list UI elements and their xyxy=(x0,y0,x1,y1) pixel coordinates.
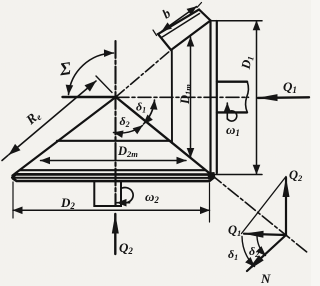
vector diagram: delta1 arc xyxy=(242,237,255,267)
shaft of pinion top edge xyxy=(217,80,247,82)
angle delta2 arc main xyxy=(114,126,143,134)
force Q2 arrow xyxy=(114,214,116,254)
dimension D2 right extension xyxy=(209,183,211,222)
pinion rim inner top line xyxy=(162,14,200,38)
vector diagram: delta2 arc xyxy=(257,237,266,256)
rotation omega2 loop xyxy=(122,188,133,203)
dimension D1 bottom extension line xyxy=(213,174,262,176)
vector diagram: force Q2 vector xyxy=(285,178,287,236)
dimension D2 left extension xyxy=(12,182,14,218)
wheel 2 bottom rim slab mid line xyxy=(15,177,212,179)
svg-text:N: N xyxy=(260,271,271,286)
wire horizontal axis solid part left of apex xyxy=(63,96,117,98)
wheel 2 face ring line 3 xyxy=(20,169,205,171)
pinion small end face vertical xyxy=(171,50,173,143)
angle delta1 arc main xyxy=(144,100,155,124)
wire pitch generator dash-dot extension to vector origin xyxy=(211,175,308,254)
wire pinion generator dash-dot O-J1 xyxy=(116,50,171,97)
dimension D1 vertical line with arrows xyxy=(256,21,258,175)
pinion back disc left vertical xyxy=(209,21,211,175)
shaft of pinion bottom edge xyxy=(217,111,247,113)
dimension Re line with arrows xyxy=(9,81,96,155)
dimension b line with arrows xyxy=(162,7,197,32)
rotation omega2 arrow xyxy=(117,202,130,204)
dimension D2m horizontal line with arrows xyxy=(41,160,187,162)
pinion back disc right vertical xyxy=(216,21,218,173)
dimension Re upper extension from apex xyxy=(96,76,112,93)
wheel 2 hub notch xyxy=(94,181,121,206)
dimension Re lower extension tick xyxy=(2,155,8,160)
wheel 2 left edge C-O xyxy=(13,97,116,176)
vector diagram: triangle closing line xyxy=(242,177,287,234)
dimension b extension ticks xyxy=(153,30,157,36)
wheel 2 bottom rim slab top line xyxy=(12,174,210,177)
dimension D2 horizontal line with arrows xyxy=(13,209,210,211)
force Q1 arrow xyxy=(258,96,309,99)
rotation omega1 loop xyxy=(228,111,237,121)
dimension D1 top extension line xyxy=(212,20,262,22)
wire horizontal axis dash-dot of pinion 1 xyxy=(116,96,249,98)
vector diagram: force Q1 vector xyxy=(244,234,286,235)
vector diagram: normal force N vector xyxy=(247,235,286,271)
wire common pitch generator solid O-K xyxy=(116,97,211,175)
rotation omega1 arrow xyxy=(226,103,228,119)
wheel 2 face ring line 1 xyxy=(57,140,170,142)
node K contact junction blob xyxy=(208,172,216,180)
dimension D1m vertical line with arrows xyxy=(190,37,192,158)
angle Sigma arc with arrows xyxy=(69,53,114,95)
pinion 1 rim band xyxy=(158,10,211,51)
shaft break wavy end xyxy=(246,82,249,113)
wire vertical axis of wheel 2 xyxy=(114,41,116,206)
wheel 2 bottom rim slab bottom line xyxy=(13,178,213,181)
